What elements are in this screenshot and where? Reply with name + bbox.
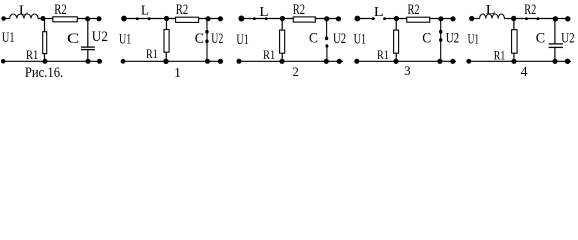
node C-bottom circuit 3 [437,59,442,64]
wire bottom rail circuit 1 [123,60,223,62]
svg-text:L: L [259,5,268,20]
capacitor C (blob style, gapped) circuit 2 [326,19,328,40]
terminal node bottom-left circuit 2 [237,59,242,64]
svg-text:R2: R2 [54,2,67,18]
svg-text:U1: U1 [236,32,248,48]
wire R1 branch circuit 2 [281,19,283,62]
svg-text:R2: R2 [293,2,305,18]
svg-text:R2: R2 [524,2,536,18]
svg-text:R1: R1 [26,47,39,62]
wire R1 branch circuit Рис.16 [44,19,46,62]
wire bottom rail circuit 3 [357,60,456,62]
resistor R2 circuit 1 [176,17,199,22]
svg-text:C: C [309,31,318,47]
svg-text:U2: U2 [561,31,575,47]
capacitor C circuit 4 [549,43,563,45]
terminal node bottom-left circuit 1 [121,59,126,64]
wire top rail circuit 1 [124,18,220,20]
terminal node bottom-right circuit 1 [218,59,223,64]
node J1 circuit Рис.16 [41,16,46,21]
svg-text:L: L [141,3,149,18]
resistor R2 circuit 2 [293,17,315,22]
node J2 circuit 1 [206,16,211,21]
wire capacitor branch upper circuit 4 [554,19,556,44]
node J1 circuit 4 [511,16,516,21]
terminal node top-left circuit 4 [469,16,474,21]
node R1-bottom circuit 4 [511,59,516,64]
svg-text:R1: R1 [494,48,506,63]
wire capacitor branch lower circuit 4 [554,48,556,61]
wire bottom rail circuit 4 [469,60,571,62]
svg-text:R1: R1 [146,46,158,61]
inductor L (dotted) circuit 3 [372,17,375,20]
svg-text:U2: U2 [211,31,223,47]
svg-text:R2: R2 [408,2,420,18]
wire top rail right segment circuit Рис.16 [38,18,99,20]
node J2 circuit Рис.16 [85,16,90,21]
node C-bottom circuit 2 [324,59,329,64]
svg-text:L: L [374,5,384,20]
svg-text:C: C [195,31,204,47]
svg-text:C: C [422,31,431,47]
terminal node bottom-left circuit 4 [466,59,471,64]
resistor R1 circuit 4 [512,30,517,54]
wire bottom rail circuit 2 [239,60,343,62]
node R1-bottom circuit 3 [393,59,398,64]
resistor R2 circuit Рис.16 [53,17,78,22]
terminal node top-right circuit 3 [450,16,455,21]
node R1-bottom circuit 2 [279,59,284,64]
svg-text:R1: R1 [377,47,389,62]
wire top rail left segment circuit Рис.16 [3,18,9,20]
terminal node top-right circuit 4 [565,16,570,21]
terminal node bottom-right circuit 3 [450,59,455,64]
svg-text:U1: U1 [119,31,131,47]
node J2 circuit 3 [438,16,443,21]
svg-text:4: 4 [521,65,528,80]
svg-text:U2: U2 [446,31,459,47]
wire capacitor branch upper circuit Рис.16 [87,19,89,47]
svg-text:3: 3 [404,63,411,78]
svg-text:C: C [536,31,545,47]
node J1 circuit 2 [280,16,285,21]
wire top rail left segment circuit 3 [357,18,375,20]
svg-text:R2: R2 [176,2,188,18]
node C-bottom circuit Рис.16 [86,59,91,64]
capacitor C circuit Рис.16 [81,46,95,48]
terminal node bottom-left circuit 3 [354,59,359,64]
terminal node top-left circuit 1 [121,16,127,22]
inductor L circuit 4 [480,14,505,19]
wire top rail right segment circuit 3 [384,18,454,20]
svg-text:U1: U1 [354,31,367,47]
node J2 circuit 2 [324,16,329,21]
terminal node top-right circuit Рис.16 [97,16,102,21]
terminal node top-right circuit 1 [218,16,223,21]
terminal node top-left circuit 3 [355,16,361,22]
terminal node bottom-right circuit 4 [565,59,570,64]
wire R1 branch circuit 4 [513,19,515,62]
svg-text:U2: U2 [92,29,108,45]
node J1 circuit 3 [394,16,399,21]
node R1-bottom circuit Рис.16 [43,59,48,64]
wire top rail right segment circuit 4 [504,18,568,20]
inductor L (dotted) circuit 2 [253,17,256,20]
resistor R1 circuit 3 [394,30,399,53]
node C-bottom circuit 4 [552,59,557,64]
wire R1 branch circuit 3 [395,19,397,62]
node J2 circuit 4 [553,16,558,21]
inductor L (dotted) circuit 1 [136,17,139,20]
resistor R1 circuit Рис.16 [43,32,47,54]
terminal node bottom-right circuit 2 [337,59,342,64]
svg-text:1: 1 [174,65,181,80]
svg-text:Рис.16.: Рис.16. [25,65,63,81]
resistor R2 (dotted) circuit 4 [525,17,528,20]
wire bottom rail circuit Рис.16 [3,60,102,62]
terminal node top-right circuit 2 [336,16,341,21]
svg-text:C: C [67,31,79,47]
node R1-bottom circuit 1 [163,59,168,64]
node J1 circuit 1 [164,16,169,21]
wire top rail left segment circuit 4 [472,18,480,20]
resistor R1 circuit 1 [164,30,169,53]
inductor L circuit Рис.16 [10,14,38,19]
svg-text:U1: U1 [2,30,15,46]
resistor R1 circuit 2 [280,30,285,53]
svg-text:2: 2 [292,64,299,79]
svg-text:L: L [19,2,29,17]
wire capacitor branch lower circuit Рис.16 [87,50,89,61]
terminal node top-left circuit Рис.16 [1,16,6,21]
terminal node top-left circuit 2 [238,16,244,22]
svg-text:L: L [486,2,496,17]
terminal node bottom-right circuit Рис.16 [97,59,102,64]
wire R1 branch circuit 1 [165,19,167,62]
svg-text:U2: U2 [333,31,346,47]
terminal node bottom-left circuit Рис.16 [1,59,6,64]
svg-text:U1: U1 [468,31,480,47]
capacitor C (blob style) circuit 3 [440,19,442,62]
resistor R2 circuit 3 [407,17,430,22]
capacitor C (blob style) circuit 1 [206,19,208,62]
svg-text:R1: R1 [263,47,275,62]
node C-bottom circuit 1 [205,59,210,64]
wire top rail circuit 2 [241,18,338,20]
